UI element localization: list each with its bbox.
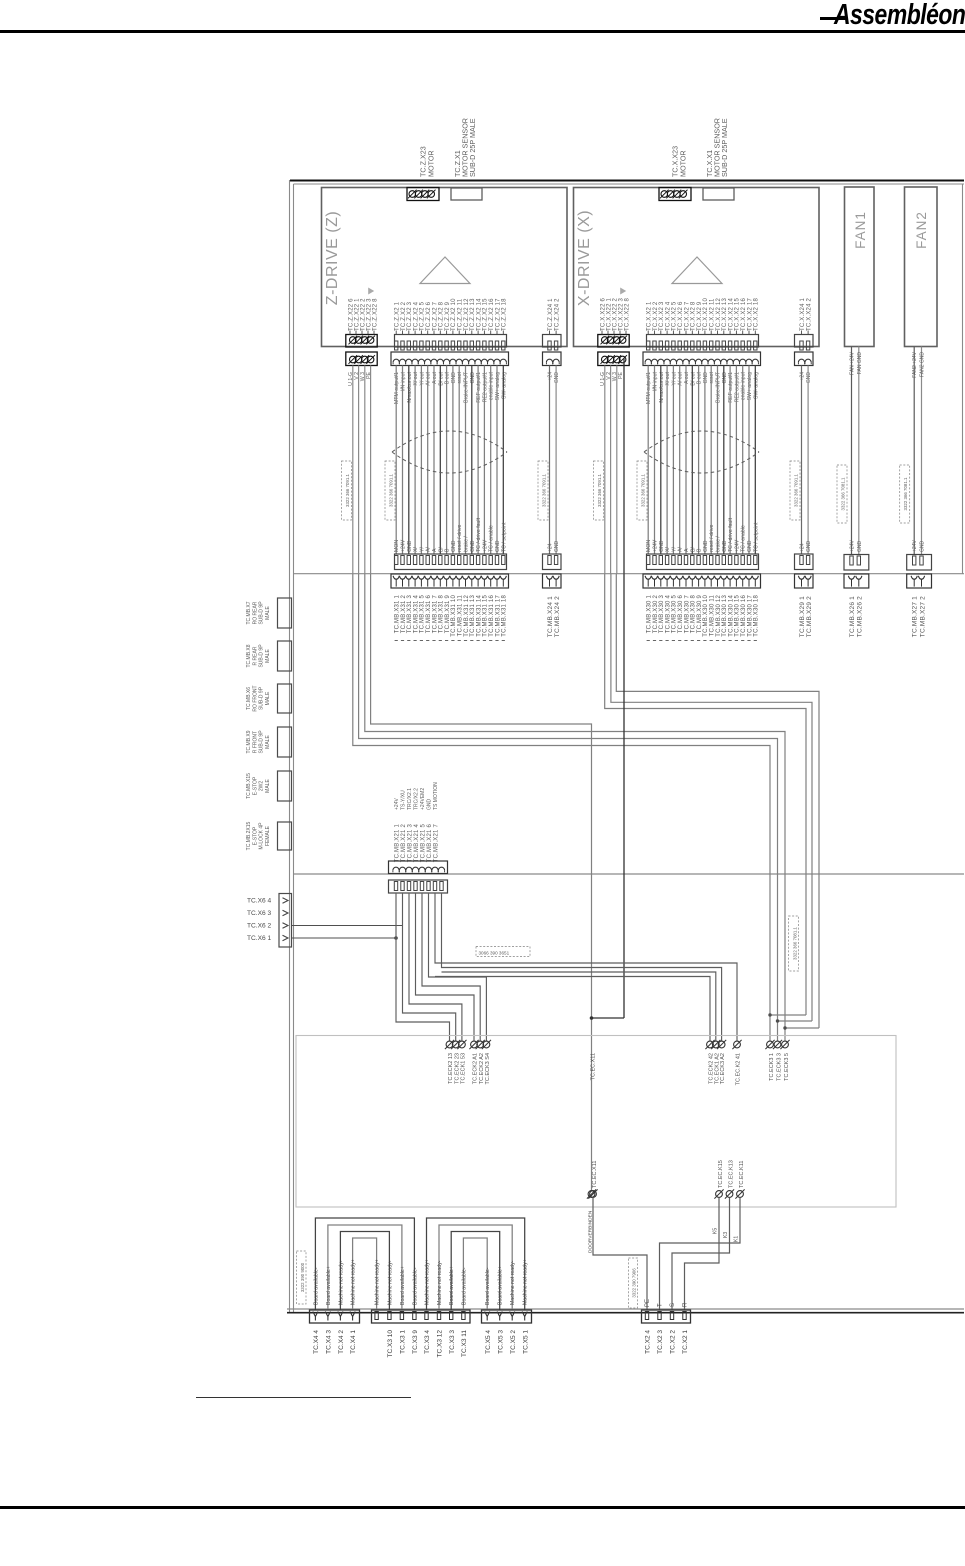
svg-text:TC.ECK3 A2: TC.ECK3 A2: [720, 1053, 726, 1084]
svg-text:Board available+: Board available+: [449, 1266, 455, 1305]
svg-text:Nmax/cur.out: Nmax/cur.out: [407, 371, 413, 402]
svg-text:TC.MB.X31 5: TC.MB.X31 5: [420, 595, 426, 634]
svg-text:3322 366 7091.1: 3322 366 7091.1: [793, 473, 798, 507]
svg-text:GND: GND: [451, 540, 457, 552]
svg-text:TC.X.X2 16: TC.X.X2 16: [741, 298, 747, 331]
svg-text:Board available-: Board available-: [313, 1267, 319, 1305]
svg-text:+24: +24: [800, 543, 806, 552]
svg-text:TC.MB.X30 13: TC.MB.X30 13: [722, 595, 728, 637]
svg-text:TC.Z.X2 5: TC.Z.X2 5: [420, 301, 426, 331]
svg-text:TC.MB.X30 6: TC.MB.X30 6: [678, 595, 684, 634]
svg-text:TC.MB.X7: TC.MB.X7: [246, 601, 252, 624]
svg-text:TC.X.X24 2: TC.X.X24 2: [806, 298, 812, 331]
svg-text:RE2 output/1: RE2 output/1: [734, 372, 740, 402]
svg-text:TC.MB.X31 12: TC.MB.X31 12: [464, 595, 470, 637]
svg-text:TC.X5 1: TC.X5 1: [522, 1330, 529, 1354]
svg-text:TC.EC.K13: TC.EC.K13: [728, 1160, 734, 1188]
svg-text:R REAR: R REAR: [252, 646, 258, 665]
svg-text:3322 366 7081.1: 3322 366 7081.1: [903, 477, 908, 511]
svg-text:TC.MB.X31 2: TC.MB.X31 2: [401, 595, 407, 634]
svg-text:TC / setpoint: TC / setpoint: [501, 522, 507, 552]
svg-text:TC.Z.X2 11: TC.Z.X2 11: [458, 298, 464, 331]
svg-text:TC.X.X2 10: TC.X.X2 10: [703, 298, 709, 331]
svg-text:TC.EC.K11: TC.EC.K11: [739, 1161, 745, 1188]
svg-text:brake /: brake /: [464, 536, 470, 552]
svg-text:TC.X4 1: TC.X4 1: [350, 1330, 357, 1354]
svg-text:Y/ out: Y/ out: [671, 371, 677, 385]
svg-text:TC.MB.X26 1: TC.MB.X26 1: [849, 596, 856, 637]
svg-text:TC / enable: TC / enable: [489, 525, 495, 552]
svg-text:reset: reset: [709, 371, 715, 383]
svg-text:TC.X5 2: TC.X5 2: [510, 1330, 517, 1354]
svg-text:TC.MB.X31 4: TC.MB.X31 4: [413, 595, 419, 634]
svg-text:SUB-D 9P: SUB-D 9P: [259, 686, 265, 710]
svg-text:E-STOP: E-STOP: [252, 776, 258, 795]
svg-text:SW+ analog: SW+ analog: [495, 372, 501, 401]
svg-text:T: T: [658, 1303, 664, 1307]
svg-text:TC.X.X2 4: TC.X.X2 4: [665, 301, 671, 331]
svg-text:GND: GND: [407, 540, 413, 552]
svg-text:REF output/1: REF output/1: [728, 372, 734, 403]
svg-text:brake /: brake /: [716, 536, 722, 552]
svg-text:GND: GND: [722, 540, 728, 552]
svg-text:Machine not ready+: Machine not ready+: [523, 1259, 529, 1305]
svg-text:TC.X3 1: TC.X3 1: [400, 1330, 407, 1354]
svg-text:MALE: MALE: [265, 606, 271, 620]
svg-text:SUB-D 25P MALE: SUB-D 25P MALE: [468, 118, 477, 177]
svg-text:TC.ECK3 S4: TC.ECK3 S4: [485, 1053, 491, 1084]
svg-text:TC.MB.X30 4: TC.MB.X30 4: [665, 595, 671, 634]
svg-text:TC.EC.K2 41: TC.EC.K2 41: [736, 1053, 742, 1085]
svg-text:Y/: Y/: [671, 547, 677, 552]
svg-text:TC.MB.X6: TC.MB.X6: [246, 687, 252, 710]
svg-text:TC.X.X22 8: TC.X.X22 8: [624, 298, 630, 331]
svg-text:TC.MB.X30 16: TC.MB.X30 16: [741, 595, 747, 637]
svg-text:I/N input: I/N input: [653, 371, 659, 391]
svg-text:TC.MB.X30 2: TC.MB.X30 2: [653, 595, 659, 634]
svg-text:TC.X.X2 6: TC.X.X2 6: [678, 301, 684, 331]
svg-text:TC.X.X2 8: TC.X.X2 8: [691, 301, 697, 331]
svg-text:R FRONT: R FRONT: [252, 731, 258, 753]
svg-text:TC.X2 1: TC.X2 1: [682, 1330, 689, 1354]
svg-text:SW- analog: SW- analog: [501, 372, 507, 399]
svg-text:GND: GND: [703, 372, 709, 384]
svg-text:TC.MB.X15: TC.MB.X15: [246, 773, 252, 799]
svg-text:+24V: +24V: [653, 539, 659, 552]
svg-text:TC.MB.X26 2: TC.MB.X26 2: [857, 596, 864, 637]
svg-text:TC.X.X2 15: TC.X.X2 15: [735, 298, 741, 331]
svg-text:S: S: [670, 1303, 676, 1307]
svg-text:GND: GND: [451, 372, 457, 384]
svg-text:GND: GND: [920, 541, 926, 553]
svg-text:B: B: [445, 548, 451, 552]
svg-text:TC.ECK2 13: TC.ECK2 13: [448, 1053, 454, 1084]
svg-text:X/ out: X/ out: [413, 371, 419, 385]
svg-text:3322 366 7091.1: 3322 366 7091.1: [388, 473, 393, 507]
svg-text:TC.MB.X24 2: TC.MB.X24 2: [554, 596, 561, 637]
svg-text:TC / enable: TC / enable: [741, 525, 747, 552]
svg-text:TC.Z.X22 8: TC.Z.X22 8: [372, 298, 378, 331]
svg-text:Z-DRIVE (Z): Z-DRIVE (Z): [324, 211, 341, 305]
svg-text:GND: GND: [427, 799, 433, 811]
svg-text:TC.MB.X9: TC.MB.X9: [246, 730, 252, 753]
svg-text:SW+ analog: SW+ analog: [747, 372, 753, 401]
svg-text:FAN +24V: FAN +24V: [850, 351, 856, 375]
svg-text:GND: GND: [659, 540, 665, 552]
svg-text:TC.X.X2 17: TC.X.X2 17: [747, 298, 753, 331]
svg-text:TRC/X2.1: TRC/X2.1: [407, 788, 413, 810]
svg-text:A: A: [432, 548, 438, 552]
svg-text:TC.Z.X2 9: TC.Z.X2 9: [445, 301, 451, 331]
svg-text:TS-Y/XU: TS-Y/XU: [401, 790, 407, 810]
svg-text:TC.X5 3: TC.X5 3: [497, 1330, 504, 1354]
svg-text:R: R: [683, 1302, 689, 1307]
svg-text:reset /-drive: reset /-drive: [709, 524, 715, 552]
svg-text:TC.X4 4: TC.X4 4: [313, 1330, 320, 1354]
svg-text:3322 366 7091.1: 3322 366 7091.1: [541, 473, 546, 507]
svg-text:TC.MB.X8: TC.MB.X8: [246, 644, 252, 667]
svg-text:reset: reset: [457, 371, 463, 383]
svg-text:3066 390 3651: 3066 390 3651: [479, 951, 510, 956]
svg-text:A/ out: A/ out: [678, 371, 684, 385]
svg-text:TC.MB.X30 12: TC.MB.X30 12: [716, 595, 722, 637]
svg-text:TC.Z.X2 15: TC.Z.X2 15: [483, 298, 489, 331]
svg-text:Board available+: Board available+: [400, 1266, 406, 1305]
svg-text:SUB-D 9P: SUB-D 9P: [259, 730, 265, 754]
svg-text:GND: GND: [470, 540, 476, 552]
svg-text:GND: GND: [806, 541, 812, 553]
svg-text:K1: K1: [734, 1236, 740, 1242]
svg-text:TC.MB.X24 1: TC.MB.X24 1: [547, 596, 554, 637]
svg-text:TC.Z.X2 10: TC.Z.X2 10: [451, 298, 457, 331]
svg-text:TC.MB.X27 1: TC.MB.X27 1: [912, 596, 919, 637]
svg-text:TC.Z.X2 13: TC.Z.X2 13: [470, 298, 476, 331]
svg-text:TC.MB.X30 9: TC.MB.X30 9: [697, 595, 703, 634]
svg-text:X/: X/: [665, 547, 671, 552]
svg-text:TC.X2 3: TC.X2 3: [657, 1330, 664, 1354]
svg-text:B out: B out: [697, 371, 703, 384]
svg-text:MTM output/1: MTM output/1: [394, 372, 400, 404]
svg-text:TC.Z.X2 4: TC.Z.X2 4: [413, 301, 419, 331]
svg-text:TC.X.X2 7: TC.X.X2 7: [684, 301, 690, 331]
svg-text:TC.MB.X30 8: TC.MB.X30 8: [691, 595, 697, 634]
svg-text:RO REAR: RO REAR: [252, 601, 258, 624]
svg-text:TC.X.X2 14: TC.X.X2 14: [728, 298, 734, 331]
svg-text:TS MOTION: TS MOTION: [433, 782, 439, 810]
svg-text:TC.MB.X31 1: TC.MB.X31 1: [395, 595, 401, 634]
svg-text:Y/ out: Y/ out: [419, 371, 425, 385]
svg-text:TC.MB.X30 18: TC.MB.X30 18: [754, 595, 760, 637]
svg-text:MALE: MALE: [265, 691, 271, 705]
svg-text:TC.X.X2 9: TC.X.X2 9: [697, 301, 703, 331]
svg-text:TC.X3 12: TC.X3 12: [437, 1330, 444, 1358]
svg-text:TC.MB.X31 10: TC.MB.X31 10: [451, 595, 457, 637]
svg-text:TC /-drive fault: TC /-drive fault: [476, 517, 482, 552]
svg-text:TC.MB.X31 15: TC.MB.X31 15: [483, 595, 489, 637]
svg-text:3322 366 7081.1: 3322 366 7081.1: [840, 477, 845, 511]
svg-text:GND: GND: [703, 540, 709, 552]
svg-text:TC.EC.X11: TC.EC.X11: [592, 1161, 598, 1188]
svg-text:M-LOCK 4P: M-LOCK 4P: [259, 822, 265, 850]
svg-text:TC.MB.X21 6: TC.MB.X21 6: [427, 824, 433, 863]
svg-text:SUB-D 9P: SUB-D 9P: [259, 601, 265, 625]
svg-text:X/: X/: [413, 547, 419, 552]
svg-text:FAN GND: FAN GND: [857, 352, 863, 375]
svg-text:TC.Z.X2 2: TC.Z.X2 2: [401, 301, 407, 331]
svg-text:Board available+: Board available+: [498, 1266, 504, 1305]
svg-text:Machine not ready-: Machine not ready-: [338, 1260, 344, 1305]
svg-text:TC.MB.2X15: TC.MB.2X15: [246, 821, 252, 850]
svg-text:TC.MB.X31 17: TC.MB.X31 17: [495, 595, 501, 637]
svg-text:TC.Z.X24 2: TC.Z.X24 2: [554, 298, 560, 331]
svg-text:SW- analog: SW- analog: [753, 372, 759, 399]
svg-text:TC.X4 3: TC.X4 3: [326, 1330, 333, 1354]
svg-text:TC.MB.X31 16: TC.MB.X31 16: [489, 595, 495, 637]
svg-text:MALE: MALE: [265, 649, 271, 663]
svg-text:Machine not ready+: Machine not ready+: [351, 1259, 357, 1305]
svg-text:TC.ECK3 5: TC.ECK3 5: [784, 1053, 790, 1081]
svg-text:Brake-INPUT: Brake-INPUT: [464, 371, 470, 403]
svg-text:Board available-: Board available-: [461, 1267, 467, 1305]
svg-text:Nmax/cur.out: Nmax/cur.out: [659, 371, 665, 402]
svg-text:Machine not ready-: Machine not ready-: [387, 1260, 393, 1305]
svg-text:TC.X3 4: TC.X3 4: [424, 1330, 431, 1354]
svg-text:TC /-drive fault: TC /-drive fault: [728, 517, 734, 552]
svg-text:TC.X6 1: TC.X6 1: [247, 935, 272, 942]
svg-text:TC.MB.X31 13: TC.MB.X31 13: [470, 595, 476, 637]
svg-text:TC.MB.X21 7: TC.MB.X21 7: [433, 824, 439, 863]
svg-text:TC.X2 2: TC.X2 2: [670, 1330, 677, 1354]
svg-text:B/ out: B/ out: [690, 371, 696, 385]
svg-text:TC.X5 4: TC.X5 4: [485, 1330, 492, 1354]
svg-text:TC.MB.X30 14: TC.MB.X30 14: [728, 595, 734, 637]
svg-text:TC.Z.X2 7: TC.Z.X2 7: [432, 301, 438, 331]
svg-text:TC.ECK2 23: TC.ECK2 23: [454, 1053, 460, 1084]
svg-text:E-STOP: E-STOP: [252, 826, 258, 845]
svg-text:TC.MB.X21 4: TC.MB.X21 4: [414, 824, 420, 863]
svg-text:X/ out: X/ out: [665, 371, 671, 385]
svg-text:TC.X2 4: TC.X2 4: [645, 1330, 652, 1354]
svg-text:TC.MB.X30 17: TC.MB.X30 17: [747, 595, 753, 637]
svg-text:3322 366 7091.1: 3322 366 7091.1: [597, 473, 602, 507]
svg-text:TC.MB.X21 2: TC.MB.X21 2: [401, 824, 407, 863]
svg-text:TC.MB.X31 3: TC.MB.X31 3: [407, 595, 413, 634]
svg-text:Y/: Y/: [419, 547, 425, 552]
svg-text:TC.ECK3 3: TC.ECK3 3: [776, 1053, 782, 1081]
svg-text:A: A: [684, 548, 690, 552]
svg-text:TC.Z.X2 17: TC.Z.X2 17: [495, 298, 501, 331]
svg-text:MON: MON: [646, 540, 652, 552]
svg-text:enable input: enable input: [741, 371, 747, 400]
svg-text:TC.MB.X31 8: TC.MB.X31 8: [439, 595, 445, 634]
svg-text:TC.ECK3 1: TC.ECK3 1: [769, 1053, 775, 1081]
svg-text:TC.X.X2 5: TC.X.X2 5: [672, 301, 678, 331]
svg-text:MON: MON: [394, 540, 400, 552]
svg-text:reset /-drive: reset /-drive: [457, 524, 463, 552]
svg-text:3322 390 9000: 3322 390 9000: [300, 1262, 305, 1292]
svg-text:TC.MB.X21 1: TC.MB.X21 1: [394, 824, 400, 863]
svg-text:GND: GND: [857, 541, 863, 553]
svg-text:TC.MB.X30 5: TC.MB.X30 5: [672, 595, 678, 634]
svg-text:TC.ECK2 A2: TC.ECK2 A2: [479, 1053, 485, 1084]
svg-text:A/ out: A/ out: [426, 371, 432, 385]
svg-text:Machine not ready-: Machine not ready-: [510, 1260, 516, 1305]
svg-text:MALE: MALE: [265, 779, 271, 793]
svg-text:B: B: [697, 548, 703, 552]
svg-text:+24V: +24V: [394, 798, 400, 810]
svg-text:B/ out: B/ out: [438, 371, 444, 385]
svg-text:A/: A/: [678, 547, 684, 552]
svg-text:TC.MB.X21 5: TC.MB.X21 5: [420, 824, 426, 863]
svg-text:enable input: enable input: [489, 371, 495, 400]
svg-text:TC.EC.X11: TC.EC.X11: [591, 1053, 597, 1080]
svg-text:TC.MB.X31 11: TC.MB.X31 11: [458, 595, 464, 637]
svg-text:MALE: MALE: [265, 735, 271, 749]
svg-text:Board available-: Board available-: [485, 1267, 491, 1305]
svg-text:I/N input: I/N input: [401, 371, 407, 391]
svg-text:TRC/X2.2: TRC/X2.2: [414, 788, 420, 810]
svg-text:TC.MB.X30 15: TC.MB.X30 15: [735, 595, 741, 637]
svg-text:3322 366 7091.1: 3322 366 7091.1: [345, 473, 350, 507]
svg-text:+24: +24: [548, 372, 554, 381]
svg-text:REF output/1: REF output/1: [476, 372, 482, 403]
svg-text:TC.EC.K15: TC.EC.K15: [718, 1160, 724, 1188]
svg-text:SUB-D 9P: SUB-D 9P: [259, 644, 265, 668]
svg-text:TC.MB.X31 18: TC.MB.X31 18: [502, 595, 508, 637]
svg-text:TC.MB.X31 9: TC.MB.X31 9: [445, 595, 451, 634]
svg-text:+24V: +24V: [850, 540, 856, 552]
svg-text:TC.MB.X31 14: TC.MB.X31 14: [476, 595, 482, 637]
svg-text:TC.X.X2 18: TC.X.X2 18: [754, 298, 760, 331]
svg-text:TC.Z.X2 3: TC.Z.X2 3: [407, 301, 413, 331]
svg-text:RO FRONT: RO FRONT: [252, 685, 258, 711]
svg-text:GND: GND: [554, 372, 560, 384]
svg-text:GND: GND: [747, 540, 753, 552]
svg-text:TC.MB.X29 2: TC.MB.X29 2: [806, 596, 813, 637]
svg-text:FAN2 GND: FAN2 GND: [920, 352, 926, 377]
svg-text:TC.X.X2 3: TC.X.X2 3: [659, 301, 665, 331]
svg-text:GND: GND: [554, 541, 560, 553]
svg-text:B out: B out: [445, 371, 451, 384]
svg-text:Board available+: Board available+: [326, 1266, 332, 1305]
svg-text:3322 390 7906: 3322 390 7906: [632, 1268, 637, 1298]
svg-text:TC.Z.X2 1: TC.Z.X2 1: [395, 301, 401, 331]
svg-text:B/: B/: [690, 547, 696, 552]
svg-text:TC.X4 2: TC.X4 2: [338, 1330, 345, 1354]
svg-text:TC.Z.X24 1: TC.Z.X24 1: [548, 298, 554, 331]
svg-text:TC.X3 9: TC.X3 9: [412, 1330, 419, 1354]
svg-text:TC.ECK1 53: TC.ECK1 53: [461, 1053, 467, 1084]
svg-text:DOORVERBINDEN: DOORVERBINDEN: [588, 1210, 594, 1253]
svg-text:FEMALE: FEMALE: [265, 825, 271, 846]
svg-text:TC.MB.X31 6: TC.MB.X31 6: [426, 595, 432, 634]
svg-text:+24V: +24V: [401, 539, 407, 552]
svg-text:TC.X3 11: TC.X3 11: [461, 1330, 468, 1357]
svg-text:TC.MB.X30 10: TC.MB.X30 10: [703, 595, 709, 637]
svg-text:MOTOR: MOTOR: [679, 150, 688, 177]
svg-text:FAN1: FAN1: [853, 211, 868, 249]
svg-text:Machine not ready-: Machine not ready-: [437, 1260, 443, 1305]
svg-text:TC.MB.X21 3: TC.MB.X21 3: [407, 824, 413, 863]
svg-text:+24V: +24V: [734, 539, 740, 552]
svg-text:TC.Z.X2 12: TC.Z.X2 12: [464, 298, 470, 331]
svg-text:TC.MB.X30 3: TC.MB.X30 3: [659, 595, 665, 634]
svg-text:PE: PE: [645, 1299, 651, 1307]
svg-text:Board available-: Board available-: [412, 1267, 418, 1305]
svg-text:A/: A/: [426, 547, 432, 552]
svg-text:3322 366 7091.1: 3322 366 7091.1: [640, 473, 645, 507]
svg-text:GND: GND: [806, 372, 812, 384]
svg-text:GND: GND: [722, 372, 728, 384]
svg-text:TC.X6 2: TC.X6 2: [247, 923, 272, 930]
svg-text:FAN2 +24V: FAN2 +24V: [912, 351, 918, 377]
svg-text:Brake-INPUT: Brake-INPUT: [716, 371, 722, 403]
svg-text:+24V: +24V: [482, 539, 488, 552]
svg-text:A out: A out: [684, 371, 690, 383]
svg-text:TC.X.X2 1: TC.X.X2 1: [647, 301, 653, 331]
svg-text:TC.MB.X30 11: TC.MB.X30 11: [710, 595, 716, 637]
svg-text:TC.ECK2 A1: TC.ECK2 A1: [473, 1053, 479, 1084]
svg-text:TC.MB.X29 1: TC.MB.X29 1: [799, 596, 806, 637]
svg-text:TC.Z.X2 8: TC.Z.X2 8: [439, 301, 445, 331]
svg-text:TC.MB.X30 1: TC.MB.X30 1: [647, 595, 653, 634]
svg-text:TC.X6 4: TC.X6 4: [247, 898, 272, 905]
svg-text:K3: K3: [723, 1232, 729, 1238]
svg-text:B/: B/: [438, 547, 444, 552]
svg-text:TC.X6 3: TC.X6 3: [247, 910, 272, 917]
svg-text:TC.X.X2 11: TC.X.X2 11: [710, 298, 716, 331]
svg-text:Machine not ready+: Machine not ready+: [375, 1259, 381, 1305]
svg-text:GND: GND: [470, 372, 476, 384]
svg-text:TC.MB.X31 7: TC.MB.X31 7: [432, 595, 438, 634]
svg-text:GND: GND: [495, 540, 501, 552]
svg-text:+24: +24: [548, 543, 554, 552]
svg-text:TC.Z.X2 14: TC.Z.X2 14: [476, 298, 482, 331]
svg-text:TC.Z.X2 6: TC.Z.X2 6: [426, 301, 432, 331]
svg-text:TC.X.X24 1: TC.X.X24 1: [800, 298, 806, 331]
svg-text:K5: K5: [713, 1228, 719, 1234]
svg-text:TC.X.X2 12: TC.X.X2 12: [716, 298, 722, 331]
svg-text:TC.Z.X2 18: TC.Z.X2 18: [502, 298, 508, 331]
svg-text:TC.Z.X2 16: TC.Z.X2 16: [489, 298, 495, 331]
svg-text:+24: +24: [800, 372, 806, 381]
svg-text:TC.X.X2 13: TC.X.X2 13: [722, 298, 728, 331]
svg-text:PE: PE: [618, 371, 624, 378]
svg-text:2W2: 2W2: [259, 781, 265, 792]
svg-text:SUB-D 25P MALE: SUB-D 25P MALE: [720, 118, 729, 177]
svg-text:FAN2: FAN2: [914, 211, 929, 249]
svg-text:TC.X3 10: TC.X3 10: [387, 1330, 394, 1358]
svg-text:A out: A out: [432, 371, 438, 383]
svg-text:+24VEM2: +24VEM2: [420, 788, 426, 810]
svg-text:TC / setpoint: TC / setpoint: [753, 522, 759, 552]
svg-text:3322 366 7081.1: 3322 366 7081.1: [793, 926, 798, 960]
svg-text:TC.X3 3: TC.X3 3: [449, 1330, 456, 1354]
svg-text:TC.X.X2 2: TC.X.X2 2: [653, 301, 659, 331]
svg-text:TC.MB.X27 2: TC.MB.X27 2: [919, 596, 926, 637]
svg-text:+24V: +24V: [912, 540, 918, 552]
svg-text:X-DRIVE (X): X-DRIVE (X): [576, 210, 593, 306]
svg-text:Machine not ready+: Machine not ready+: [425, 1259, 431, 1305]
svg-text:RE2 output/1: RE2 output/1: [482, 372, 488, 402]
svg-text:TC.MB.X30 7: TC.MB.X30 7: [684, 595, 690, 634]
svg-text:MOTOR: MOTOR: [427, 150, 436, 177]
svg-text:MTM output/1: MTM output/1: [646, 372, 652, 404]
